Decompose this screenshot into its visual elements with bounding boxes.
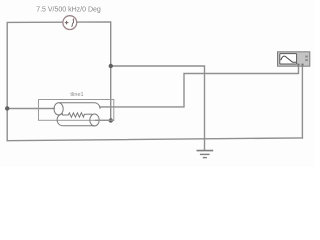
svg-text:tline1: tline1 — [70, 92, 83, 98]
svg-text:7.5 V/500 kHz/0 Deg: 7.5 V/500 kHz/0 Deg — [36, 7, 101, 14]
